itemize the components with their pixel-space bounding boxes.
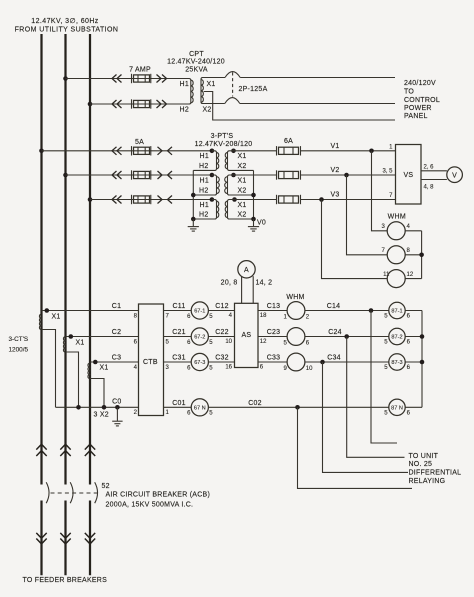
wire PT3 primary feeder — [90, 199, 212, 201]
wire C31 — [164, 361, 192, 363]
svg-text:H2: H2 — [199, 188, 208, 195]
svg-text:X1: X1 — [207, 81, 216, 88]
svg-text:H1: H1 — [200, 202, 209, 209]
breaker 52 ACB contact phase A — [46, 482, 49, 503]
svg-text:X1: X1 — [100, 364, 109, 371]
svg-text:X2: X2 — [238, 212, 247, 219]
svg-text:240/120V: 240/120V — [404, 80, 436, 87]
svg-text:C02: C02 — [248, 400, 262, 407]
wire C32 — [208, 361, 234, 363]
wire PT secondary X2 common bus — [253, 170, 255, 219]
meter WHM current coil 3 — [283, 353, 313, 372]
svg-text:12.47KV-240/120: 12.47KV-240/120 — [167, 59, 225, 66]
svg-text:14, 2: 14, 2 — [256, 280, 273, 287]
node incoming feeder label — [15, 18, 119, 33]
svg-text:C31: C31 — [172, 355, 186, 362]
breaker 52 ACB label — [102, 483, 211, 509]
node CT3 X1 — [93, 360, 109, 372]
wire VS output 2,6 — [421, 170, 447, 172]
fuse F6 6A — [277, 138, 301, 156]
svg-text:V3: V3 — [331, 192, 340, 199]
wire C14 branch to differential relaying — [371, 311, 397, 444]
node junction CT3 X2 — [102, 405, 107, 410]
svg-text:H1: H1 — [180, 81, 189, 88]
svg-text:WHM: WHM — [286, 294, 304, 301]
wire WHM potential coil 1 return — [405, 230, 421, 232]
node junction V3 — [319, 197, 324, 202]
svg-text:X2: X2 — [203, 107, 212, 114]
meter A ammeter — [238, 261, 255, 278]
wire AS to ammeter left — [241, 276, 243, 303]
svg-text:87-1: 87-1 — [391, 309, 402, 315]
svg-text:4, 8: 4, 8 — [424, 184, 435, 190]
transformer CT1 winding — [39, 314, 40, 329]
transformer PT3 secondary winding — [225, 197, 253, 219]
wire phase B bus — [64, 34, 66, 485]
wire PT3 secondary to fuse — [235, 199, 277, 201]
transformer CT3 winding — [88, 363, 89, 378]
wire C1 CT1 secondary — [42, 310, 139, 312]
svg-text:POWER: POWER — [404, 105, 432, 112]
relay 67-1 — [187, 302, 213, 320]
svg-text:V2: V2 — [331, 167, 340, 174]
svg-text:67-1: 67-1 — [194, 309, 205, 315]
wire phase A bus — [40, 34, 42, 485]
node tap phase B to PT2 — [63, 173, 68, 178]
svg-text:87 N: 87 N — [391, 406, 403, 412]
wire C21 — [164, 336, 192, 338]
svg-text:H2: H2 — [199, 163, 208, 170]
svg-text:67 N: 67 N — [194, 406, 206, 412]
svg-text:H2: H2 — [180, 107, 189, 114]
svg-text:C34: C34 — [327, 355, 341, 362]
svg-text:H1: H1 — [200, 153, 209, 160]
node tap phase A to PT1 — [39, 149, 44, 154]
breaker 52 ACB drawout chevrons phase A bottom — [36, 533, 46, 544]
meter WHM current coil 2 — [283, 328, 309, 347]
wire CPT H1 feeder — [66, 78, 189, 80]
svg-text:H1: H1 — [200, 177, 209, 184]
wire CPT X2 output to breaker — [202, 103, 225, 105]
svg-text:CONTROL: CONTROL — [404, 97, 440, 104]
node 3-CT's label — [9, 336, 29, 354]
svg-text:3 X2: 3 X2 — [94, 412, 109, 419]
wire phase C bus — [89, 34, 91, 485]
wire CPT H2 feeder — [90, 103, 188, 105]
ground primary neutral — [188, 219, 199, 231]
wire C22 — [208, 336, 234, 338]
svg-text:C01: C01 — [172, 400, 186, 407]
wire C14 — [305, 310, 389, 312]
breaker 52 ACB drawout chevrons phase B top — [60, 444, 70, 456]
wire PT1 primary feeder — [42, 150, 212, 152]
fuse F8 6A pole 3 — [277, 195, 301, 204]
wire WHM potential coil 2 return — [405, 254, 421, 256]
svg-text:V: V — [452, 172, 457, 179]
fuse F7 6A pole 2 — [277, 170, 301, 179]
wire C0 common X2 bus — [56, 406, 139, 408]
svg-text:RELAYING: RELAYING — [409, 478, 446, 485]
wire 87 return bus — [421, 311, 423, 408]
svg-text:C22: C22 — [215, 329, 229, 336]
relay 87-N differential neutral — [384, 399, 410, 416]
svg-text:1200/5: 1200/5 — [9, 347, 29, 354]
node to unit 25 differential relaying label — [409, 453, 462, 485]
svg-text:C1: C1 — [112, 303, 121, 310]
svg-text:18: 18 — [260, 313, 267, 319]
svg-text:H2: H2 — [199, 212, 208, 219]
meter WHM current coil 1 — [283, 302, 309, 321]
svg-text:C33: C33 — [267, 355, 281, 362]
svg-text:C12: C12 — [215, 303, 229, 310]
svg-text:TO FEEDER BREAKERS: TO FEEDER BREAKERS — [23, 577, 108, 584]
svg-text:C32: C32 — [215, 355, 229, 362]
switch AS ammeter switch — [235, 303, 259, 367]
wire 87-3 return — [405, 361, 422, 363]
svg-text:TO UNIT: TO UNIT — [409, 453, 439, 460]
wire C23 — [258, 336, 287, 338]
wire CT1 X2 return — [42, 330, 56, 408]
svg-text:67-3: 67-3 — [194, 360, 205, 366]
wire PT primary H2 common bus — [192, 170, 194, 219]
svg-text:AS: AS — [242, 332, 252, 339]
svg-text:87-2: 87-2 — [391, 335, 402, 341]
node junction CT2 X2 — [76, 405, 81, 410]
wire V1 drop to WHM potential coil 1 — [372, 151, 388, 231]
fuse F3 5A with drawout chevrons — [112, 139, 172, 156]
node junction PT3 X2 V0 — [251, 217, 256, 222]
transformer PT1 primary winding — [193, 149, 218, 171]
node junction C34 — [320, 360, 325, 365]
svg-text:C3: C3 — [112, 355, 121, 362]
transformer T1 CPT primary winding — [180, 79, 194, 114]
fuse F1 7 AMP with drawout chevrons — [112, 67, 167, 84]
wire PT2 primary feeder — [66, 174, 212, 176]
svg-text:X1: X1 — [238, 153, 247, 160]
wire V2 — [301, 174, 396, 176]
fuse F2 7 AMP pole 2 with drawout chevrons — [112, 99, 167, 108]
wire V2 drop to WHM potential coil 2 — [347, 175, 388, 255]
svg-text:X1: X1 — [52, 313, 61, 320]
meter WHM potential coil 2 — [387, 246, 405, 264]
breaker 52 ACB contact phase B — [70, 482, 73, 503]
node tap phase C to PT3 — [88, 197, 93, 202]
wire C33 — [258, 361, 287, 363]
wire AS to ammeter right — [252, 276, 254, 303]
node tap phase C to CPT H2 — [88, 102, 93, 107]
ground secondary neutral V0 — [248, 219, 259, 231]
node junction C0 ground tap — [115, 405, 120, 410]
svg-text:12.47KV-208/120: 12.47KV-208/120 — [195, 141, 253, 148]
breaker 52 ACB drawout chevrons phase A top — [36, 444, 46, 456]
transformer CT2 winding — [63, 337, 64, 352]
svg-text:X1: X1 — [238, 202, 247, 209]
svg-text:WHM: WHM — [388, 213, 406, 220]
svg-text:X2: X2 — [238, 188, 247, 195]
node junction 87-2 return — [420, 334, 425, 339]
svg-text:C23: C23 — [267, 329, 281, 336]
svg-text:25KVA: 25KVA — [185, 66, 208, 73]
relay 67-3 — [187, 353, 213, 371]
svg-text:CPT: CPT — [189, 51, 204, 58]
node junction V2 — [344, 173, 349, 178]
transformer T1 CPT label — [167, 51, 225, 73]
node junction WHM return — [419, 253, 424, 258]
wire C2 CT2 secondary — [66, 336, 139, 338]
svg-text:87-3: 87-3 — [391, 360, 402, 366]
wire 87-2 return — [405, 336, 422, 338]
relay 67-2 — [187, 328, 213, 346]
node junction 87-3 return — [420, 360, 425, 365]
wire C12 — [208, 310, 234, 312]
svg-text:C11: C11 — [172, 303, 185, 310]
wire VS output 4,8 — [421, 179, 447, 181]
wire CT2 X2 return — [66, 352, 79, 407]
wire V3 drop to WHM potential coil 3 — [322, 200, 388, 279]
svg-text:3-PT'S: 3-PT'S — [211, 133, 234, 140]
relay 87-2 differential — [384, 328, 410, 345]
wire C02 branch to differential relaying — [298, 407, 413, 488]
svg-text:V0: V0 — [257, 220, 266, 227]
ground CT common — [112, 407, 122, 426]
svg-text:2P-125A: 2P-125A — [239, 86, 268, 93]
svg-text:C2: C2 — [112, 329, 121, 336]
wire 87-N return — [405, 406, 422, 408]
svg-text:12: 12 — [407, 272, 414, 278]
wire C13 — [258, 310, 287, 312]
wire V1 — [301, 150, 396, 152]
wire CPT neutral center tap — [204, 92, 395, 121]
wire phase A below breaker — [40, 501, 42, 576]
wire WHM potential return bus — [421, 231, 423, 279]
breaker 52 ACB contact phase C — [95, 482, 98, 503]
wire CPT X2 output to panel — [240, 103, 395, 105]
svg-text:10: 10 — [306, 366, 313, 372]
svg-text:FROM UTILITY SUBSTATION: FROM UTILITY SUBSTATION — [15, 26, 119, 33]
transformer PT1 secondary winding — [225, 149, 253, 171]
svg-text:C0: C0 — [112, 398, 121, 405]
wire C11 — [164, 310, 192, 312]
fuse F5 5A pole 3 with drawout chevrons — [112, 195, 172, 204]
svg-text:52: 52 — [102, 483, 110, 490]
relay 67-N ground relay — [187, 399, 213, 417]
node 3-PT's label — [195, 133, 253, 148]
transformer T1 CPT secondary winding — [201, 78, 216, 114]
node junction PT2 H2 — [191, 193, 196, 198]
fuse F4 5A pole 2 with drawout chevrons — [112, 170, 172, 179]
node junction PT2 X2 — [251, 193, 256, 198]
node CT1 X1 — [45, 308, 61, 320]
wire C02 — [208, 406, 388, 408]
svg-text:C24: C24 — [328, 329, 342, 336]
wire C34 branch to differential relaying — [323, 362, 409, 472]
svg-text:CTB: CTB — [143, 359, 158, 366]
wire 87-1 return — [405, 310, 422, 312]
svg-text:C21: C21 — [172, 329, 186, 336]
node junction C24 — [344, 334, 349, 339]
svg-text:3-CT'S: 3-CT'S — [9, 336, 29, 343]
svg-text:10: 10 — [225, 339, 232, 345]
meter V voltmeter — [447, 167, 463, 183]
switch VS voltmeter switch — [396, 145, 422, 205]
meter WHM potential coil 1 — [387, 222, 405, 240]
breaker CB1 2P-125A — [225, 72, 268, 104]
svg-text:X1: X1 — [76, 339, 85, 346]
wire phase B below breaker — [64, 501, 66, 576]
test block CTB — [139, 304, 164, 416]
wire CPT X1 output to panel — [240, 77, 395, 79]
svg-text:7 AMP: 7 AMP — [129, 67, 151, 74]
svg-text:AIR CIRCUIT BREAKER (ACB): AIR CIRCUIT BREAKER (ACB) — [106, 492, 211, 499]
breaker 52 ACB drawout chevrons phase B bottom — [60, 533, 70, 544]
svg-text:3, 5: 3, 5 — [382, 169, 393, 175]
svg-text:16: 16 — [225, 364, 232, 370]
wire V3 — [301, 199, 396, 201]
wire C24 branch to differential relaying — [347, 337, 405, 458]
node junction C14 — [369, 308, 374, 313]
svg-text:12: 12 — [260, 339, 267, 345]
svg-text:DIFFERENTIAL: DIFFERENTIAL — [409, 470, 462, 477]
relay 87-1 differential — [384, 302, 410, 319]
wire phase C below breaker — [89, 501, 91, 576]
svg-text:NO. 25: NO. 25 — [409, 461, 433, 468]
wire WHM potential coil 3 return — [405, 278, 421, 280]
svg-text:TO: TO — [404, 88, 414, 95]
wire ACB gang dashed link — [51, 492, 100, 494]
svg-text:VS: VS — [404, 172, 414, 179]
transformer PT2 primary winding — [193, 173, 219, 195]
transformer PT2 secondary winding — [225, 173, 254, 195]
svg-text:X2: X2 — [238, 163, 247, 170]
wire PT2 secondary to fuse — [230, 174, 277, 176]
svg-text:2, 6: 2, 6 — [424, 164, 435, 170]
svg-text:X1: X1 — [238, 177, 247, 184]
wire CT3 X2 return — [90, 379, 104, 408]
wire C24 — [305, 336, 389, 338]
svg-text:5A: 5A — [135, 139, 144, 146]
transformer PT3 primary winding — [193, 197, 218, 219]
node tap phase B to CPT H1 — [63, 76, 68, 81]
svg-text:67-2: 67-2 — [194, 335, 205, 341]
svg-text:11: 11 — [383, 272, 390, 278]
svg-text:12.47KV, 3∅, 60Hz: 12.47KV, 3∅, 60Hz — [31, 18, 99, 25]
relay 87-3 differential — [384, 354, 410, 371]
wire C34 — [305, 361, 389, 363]
node junction C02 — [295, 405, 300, 410]
node 240/120V control power panel — [404, 80, 440, 120]
breaker 52 ACB drawout chevrons phase C top — [85, 444, 95, 456]
wire C01 — [164, 406, 192, 408]
breaker 52 ACB drawout chevrons phase C bottom — [85, 533, 95, 544]
svg-text:PANEL: PANEL — [404, 113, 428, 120]
svg-text:V1: V1 — [331, 143, 340, 150]
svg-text:2000A, 15KV 500MVA I.C.: 2000A, 15KV 500MVA I.C. — [106, 502, 194, 509]
wire PT1 secondary to fuse — [234, 150, 277, 152]
svg-text:20, 8: 20, 8 — [221, 280, 238, 287]
svg-text:A: A — [244, 267, 249, 274]
node CT2 X1 — [69, 334, 85, 346]
wire CPT X1 output to breaker — [202, 77, 225, 79]
svg-text:6A: 6A — [284, 138, 293, 145]
wire C3 CT3 secondary — [90, 361, 139, 363]
svg-text:C13: C13 — [267, 303, 281, 310]
node junction V1 — [369, 149, 374, 154]
svg-text:C14: C14 — [327, 303, 341, 310]
meter WHM potential coil 3 — [387, 270, 405, 288]
node junction PT3 H2 — [191, 217, 196, 222]
